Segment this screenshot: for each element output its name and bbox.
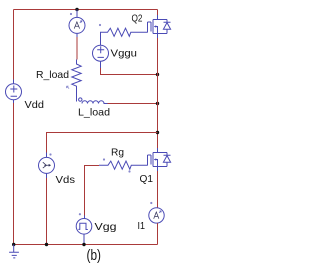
marker Q1 gate	[128, 170, 130, 172]
marker L_load +	[67, 86, 70, 88]
node bottom-left junction	[12, 243, 15, 246]
transistor Q1	[148, 148, 171, 171]
wire Q1 source to I1	[157, 171, 159, 208]
node top junction	[75, 8, 78, 11]
svg-text:(b): (b)	[87, 247, 102, 264]
svg-text:Vdd: Vdd	[25, 99, 45, 111]
source Vggu	[93, 45, 109, 68]
ammeter A1	[69, 10, 85, 38]
svg-text:Vds: Vds	[56, 174, 76, 186]
marker ammeter +	[70, 13, 72, 15]
wire Q2 drain to top rail	[157, 10, 159, 16]
wire left rail lower	[13, 103, 15, 245]
svg-text:Vgg: Vgg	[95, 221, 117, 233]
current source I1 glyph	[154, 211, 162, 219]
ground	[9, 245, 19, 258]
transistor Q2	[148, 15, 171, 38]
svg-text:Q2: Q2	[132, 13, 143, 25]
svg-text:L_load: L_load	[78, 107, 110, 119]
wire L_load to right rail	[108, 103, 158, 105]
node L_load-rail junction	[156, 102, 159, 105]
source Vdd	[6, 80, 22, 104]
node lower-loop junction	[156, 131, 159, 134]
source Vds	[39, 153, 55, 179]
ammeter A1 glyph	[74, 21, 82, 29]
svg-text:Rg: Rg	[111, 147, 124, 159]
marker Rg +	[103, 158, 105, 160]
node Vggu-rail junction	[156, 73, 159, 76]
wire Vds top loop	[47, 133, 158, 153]
current source I1	[149, 208, 164, 245]
marker I1 +	[150, 202, 152, 204]
inductor L_load	[79, 98, 108, 104]
svg-text:Q1: Q1	[140, 173, 154, 185]
source Vgg	[76, 216, 92, 245]
marker Vds +	[49, 153, 51, 155]
wire Vggu return	[101, 68, 158, 75]
resistor R_load	[72, 60, 81, 102]
node Vgg bottom junction	[82, 243, 85, 246]
resistor Rg	[99, 161, 148, 169]
wire right rail Q2 source down	[157, 38, 159, 148]
wire left rail upper	[13, 10, 15, 80]
node Vds bottom junction	[45, 243, 48, 246]
wire top rail	[14, 9, 158, 11]
source Vds glyph	[43, 162, 51, 168]
svg-text:Vggu: Vggu	[111, 48, 138, 60]
wire Vgg riser to Rg	[85, 166, 100, 216]
svg-text:R_load: R_load	[36, 69, 69, 81]
wire bottom rail	[14, 244, 158, 246]
marker gate resistor +	[99, 24, 101, 26]
wire ammeter to R_load	[76, 37, 78, 60]
svg-text:I1: I1	[138, 220, 146, 232]
marker Vgg +	[79, 213, 81, 215]
resistor gate upper (unlabeled)	[101, 28, 148, 45]
wire Vds to bottom rail	[46, 178, 48, 245]
